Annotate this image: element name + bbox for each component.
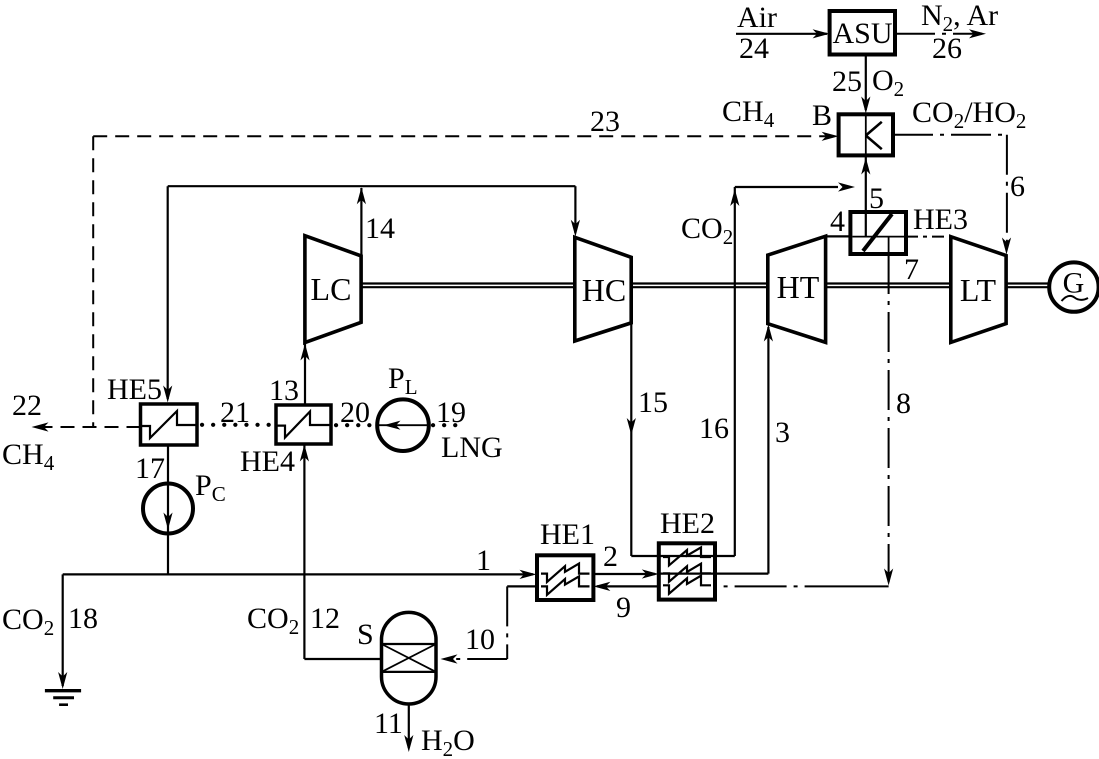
svg-text:11: 11 — [374, 707, 403, 740]
svg-text:G: G — [1063, 267, 1085, 300]
separator S — [382, 612, 437, 704]
wire 8 dash-dot HE3 down to HE2 — [715, 254, 893, 586]
svg-text:HE1: HE1 — [540, 518, 595, 551]
svg-text:ASU: ASU — [832, 17, 892, 50]
pump PL — [377, 399, 429, 451]
svg-text:HE5: HE5 — [107, 373, 162, 406]
svg-text:2: 2 — [603, 540, 618, 573]
svg-text:15: 15 — [638, 386, 668, 419]
shaft LC-HC — [361, 284, 575, 288]
turbine LT — [951, 237, 1006, 343]
heat exchanger HE1 — [537, 555, 593, 600]
wire 5 vertical into B — [861, 155, 870, 236]
combustor B — [839, 114, 893, 155]
svg-text:B: B — [812, 99, 832, 132]
svg-text:HE3: HE3 — [913, 203, 968, 236]
wire 15 HC down to HE2 — [627, 323, 735, 556]
heat exchanger HE3 — [850, 212, 906, 254]
shaft LT-G — [1006, 284, 1049, 288]
svg-text:21: 21 — [220, 396, 250, 429]
pump PC — [143, 484, 193, 534]
svg-text:N2, Ar: N2, Ar — [921, 0, 998, 36]
compressor HC — [575, 237, 631, 341]
wire 21 dotted HE5 to HE4 — [202, 423, 273, 427]
generator G — [1049, 262, 1098, 311]
wire 11 water outlet — [404, 704, 413, 752]
wire O2 line ASU to B — [861, 55, 870, 114]
ground symbol — [45, 691, 81, 705]
svg-text:LC: LC — [311, 271, 352, 307]
svg-text:HE4: HE4 — [240, 445, 295, 478]
ASU unit — [830, 11, 895, 55]
wire 9 HE2 to HE1 — [593, 582, 658, 591]
wire 12 S to HE4 — [300, 445, 382, 660]
wire 14 LC outlet loop — [163, 186, 580, 402]
wire 26 N2,Ar outlet (dash-dot) — [895, 29, 986, 38]
svg-text:9: 9 — [616, 591, 631, 624]
wire 1 into HE1 — [168, 570, 537, 579]
svg-text:23: 23 — [590, 105, 620, 138]
svg-text:16: 16 — [699, 412, 729, 445]
svg-text:4: 4 — [830, 205, 845, 238]
svg-text:HC: HC — [582, 272, 626, 308]
svg-text:S: S — [357, 618, 374, 651]
svg-text:HT: HT — [777, 269, 820, 305]
svg-text:26: 26 — [932, 32, 962, 65]
wire 4 HT to HE3 — [826, 235, 851, 237]
svg-text:24: 24 — [739, 32, 769, 65]
svg-text:Air: Air — [737, 1, 777, 34]
svg-text:HE2: HE2 — [660, 507, 715, 540]
svg-text:1: 1 — [476, 544, 491, 577]
shaft HT-LT — [826, 284, 951, 288]
svg-text:18: 18 — [68, 602, 98, 635]
svg-text:14: 14 — [365, 212, 395, 245]
wire Air inlet line — [736, 29, 830, 38]
wire 17 HE5 to PC — [167, 445, 169, 574]
svg-text:LT: LT — [960, 272, 997, 308]
svg-text:CO2/HO2: CO2/HO2 — [912, 96, 1026, 133]
wire 6 CO2/HO2 dash-dot from B to LT — [893, 135, 1011, 255]
wire 23 dashed CH4 fuel line — [93, 132, 838, 427]
svg-text:3: 3 — [775, 416, 790, 449]
wire 2 HE1 to HE2 — [593, 569, 658, 578]
wire 20 dotted HE4 to PL — [336, 423, 374, 427]
heat exchanger HE5 — [141, 404, 198, 445]
wire 16 recycle line to node 5 — [730, 182, 855, 556]
svg-text:12: 12 — [310, 602, 340, 635]
svg-text:7: 7 — [904, 253, 919, 286]
wire 7 HE3 to LT dash-dot — [906, 236, 951, 238]
shaft HC-HT — [631, 284, 768, 288]
svg-text:13: 13 — [269, 374, 299, 407]
svg-text:20: 20 — [340, 396, 370, 429]
wire 22 CH4 product dashed — [32, 422, 141, 431]
svg-text:10: 10 — [465, 623, 495, 656]
svg-text:19: 19 — [436, 396, 466, 429]
turbine HT — [768, 236, 826, 342]
heat exchanger HE4 — [276, 405, 331, 444]
wire 3 HE2 to HT — [660, 325, 773, 574]
svg-text:22: 22 — [12, 389, 42, 422]
svg-text:17: 17 — [135, 452, 165, 485]
wire 18 CO2 product to ground — [58, 574, 168, 689]
wire 19 dotted LNG inlet — [433, 423, 459, 427]
svg-text:6: 6 — [1010, 170, 1025, 203]
heat exchanger HE2 — [659, 543, 715, 599]
wire 13 HE4 to LC — [300, 344, 309, 405]
compressor LC — [305, 236, 361, 343]
svg-text:25: 25 — [832, 65, 862, 98]
svg-text:LNG: LNG — [441, 431, 503, 464]
svg-text:8: 8 — [896, 387, 911, 420]
wire 10 HE1 to separator S dash-dot — [441, 586, 538, 663]
